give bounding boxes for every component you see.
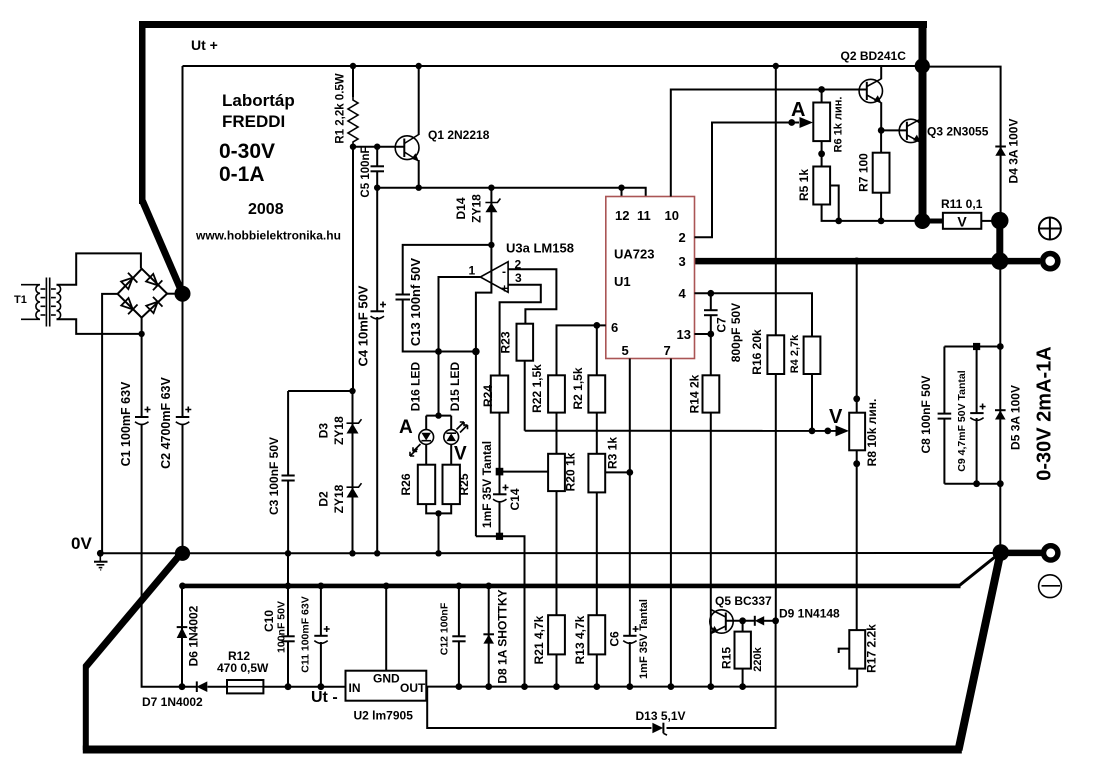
- node: C11 at Ut- rail: [318, 583, 325, 590]
- wire: secondary bottom lead to bridge bottom node: [57, 319, 140, 334]
- wire: pin13 stub: [695, 333, 711, 335]
- node: C9 top square: [973, 343, 980, 350]
- node: wiper line dot: [788, 119, 795, 126]
- wire: C11 line: [320, 586, 322, 687]
- wire: Q2 emitter down to Q3 base node: [880, 102, 882, 130]
- resistor R12 (horizontal): [227, 680, 263, 693]
- wire: C3 top to D3 line: [288, 390, 352, 392]
- wire: R4 bottom to row430: [811, 374, 813, 431]
- svg-text:C10: C10: [262, 610, 276, 632]
- wire: Ut+ rail y66: [183, 65, 922, 67]
- wire: R15: [742, 621, 744, 632]
- node: R6/R5 junction: [818, 150, 825, 157]
- thick wire: plus junction down to output line: [996, 221, 1003, 262]
- svg-text:R24: R24: [481, 385, 495, 407]
- wire: inner frame vertical x182.5: [182, 66, 184, 292]
- wire: R24 bottom to C14: [499, 413, 501, 537]
- node: D14 top: [488, 185, 494, 191]
- svg-text:V: V: [957, 214, 967, 230]
- svg-text:0-30V: 0-30V: [219, 140, 275, 163]
- svg-text:V: V: [454, 444, 467, 465]
- svg-text:R20 1k: R20 1k: [564, 452, 578, 491]
- resistor R15: [735, 632, 751, 669]
- wire: R5 wiper to bottom: [830, 186, 839, 221]
- node: Ut- rail left end / D6 top: [179, 583, 186, 590]
- ground symbol: [94, 553, 108, 570]
- wire: row y430.9 to R8 wiper: [525, 430, 838, 432]
- svg-text:www.hobbielektronika.hu: www.hobbielektronika.hu: [195, 229, 341, 243]
- wire: bridge minus corner left and down to 0V: [102, 294, 118, 552]
- op-amp U3a: [480, 262, 508, 296]
- svg-text:R22 1,5k: R22 1,5k: [530, 364, 544, 413]
- wire: R1 line top: [352, 66, 354, 97]
- node: R15 at bottom rail: [739, 683, 746, 690]
- wire: Q2 collector up to V+ rail: [880, 66, 882, 79]
- svg-text:R11 0,1: R11 0,1: [941, 197, 983, 211]
- svg-text:R2 1,5k: R2 1,5k: [571, 367, 585, 409]
- wire: C1 line down across 0V to bottom rail corner: [142, 334, 181, 687]
- capacitor C4 (electrolytic): [371, 302, 387, 319]
- capacitor C10: [281, 636, 294, 641]
- svg-text:2008: 2008: [248, 201, 284, 218]
- capacitor C6 (electrolytic): [623, 626, 638, 643]
- node: pin6/R2: [593, 322, 600, 329]
- node: R15 top: [739, 617, 746, 624]
- wire: C2 line from plus node to 0V node: [182, 294, 184, 554]
- resistor R24: [491, 376, 508, 413]
- svg-text:D3: D3: [317, 423, 331, 439]
- svg-text:D15 LED: D15 LED: [448, 361, 462, 411]
- wire: R2 to R3 to R13 chain: [596, 413, 598, 616]
- wire: pin6 to R22: [557, 325, 606, 375]
- node: bottom row at D5 line: [997, 480, 1004, 487]
- svg-text:C6: C6: [608, 631, 622, 647]
- bridge diode top-right: [145, 273, 162, 290]
- svg-text:Ut +: Ut +: [191, 37, 218, 53]
- svg-text:R14 2k: R14 2k: [688, 374, 702, 413]
- node: Q1 collector top: [416, 63, 422, 69]
- resistor R17 (trimmer): [849, 630, 865, 669]
- transistor Q1: [395, 135, 419, 162]
- wire: C8: [943, 347, 945, 484]
- transistor Q3: [899, 119, 922, 143]
- svg-text:IN: IN: [349, 681, 361, 695]
- svg-text:D13 5,1V: D13 5,1V: [636, 709, 686, 723]
- wire: 0V rail: [100, 552, 1000, 554]
- zener D2: [347, 483, 362, 497]
- wire: Q3 base: [881, 129, 907, 131]
- thick border: bottom bar: [83, 746, 962, 754]
- node: C10 at bottom rail: [285, 683, 292, 690]
- svg-text:7: 7: [664, 343, 671, 358]
- node: D6 at bottom rail: [179, 683, 186, 690]
- node: D2 at 0V: [349, 550, 355, 556]
- node: C12 at bottom rail: [456, 683, 463, 690]
- node: bridge bottom / C1 junction: [138, 331, 144, 337]
- node: output at row: [435, 348, 442, 355]
- thick border: bottom-right diagonal to minus node: [959, 553, 1001, 750]
- wire: D13 loop from U2 out corner: [427, 621, 775, 728]
- svg-text:D2: D2: [317, 491, 331, 507]
- wire: U2 GND pin up to Ut- rail: [385, 586, 387, 671]
- node: C14 line at bottom rail: [521, 683, 528, 690]
- svg-text:R13 4,7k: R13 4,7k: [573, 615, 587, 664]
- svg-text:R5 1k: R5 1k: [797, 169, 811, 201]
- wire: C10 line (C3 line continues below 0V): [287, 553, 289, 686]
- node: C5 top: [374, 144, 380, 150]
- capacitor C2 (electrolytic): [176, 407, 192, 425]
- wire: D3/D2 chain line: [352, 391, 354, 553]
- svg-text:R26: R26: [399, 473, 413, 495]
- capacitor C5: [371, 166, 385, 171]
- svg-text:UA723: UA723: [614, 247, 654, 262]
- node: D14 line at row: [472, 348, 480, 356]
- resistor R14: [703, 375, 720, 412]
- svg-text:R15: R15: [720, 647, 734, 669]
- svg-text:100nF 50V: 100nF 50V: [275, 601, 287, 653]
- svg-text:Q2 BD241C: Q2 BD241C: [841, 49, 907, 63]
- potentiometer R6: [813, 103, 830, 142]
- svg-text:0V: 0V: [71, 534, 92, 553]
- capacitor C7: [704, 310, 718, 315]
- resistor R16: [767, 335, 784, 374]
- wire: R6 bottom to R5 top: [821, 141, 823, 166]
- wire: feedback row y351.5: [403, 351, 476, 353]
- wire: U3a output to feedback node: [439, 277, 481, 352]
- node: C10 at Ut- rail: [285, 583, 292, 590]
- svg-text:R7 100: R7 100: [857, 153, 871, 192]
- node: 0V at C2 bottom: [175, 546, 190, 561]
- svg-text:Q1 2N2218: Q1 2N2218: [428, 128, 490, 142]
- node: R1 top: [350, 63, 356, 69]
- svg-text:6: 6: [611, 320, 618, 335]
- node: C12 at Ut- rail: [456, 583, 463, 590]
- svg-text:R23: R23: [499, 331, 513, 353]
- svg-text:T1: T1: [14, 294, 27, 306]
- svg-text:C12 100nF: C12 100nF: [438, 602, 450, 655]
- node: R16 line top: [773, 63, 779, 69]
- svg-text:V: V: [829, 406, 843, 428]
- svg-text:GND: GND: [373, 672, 400, 686]
- wire: bottom rail left segment: [182, 686, 346, 688]
- svg-text:D14: D14: [454, 197, 468, 219]
- svg-text:Ut -: Ut -: [311, 689, 338, 706]
- resistor R3 (trimmer): [588, 454, 605, 493]
- svg-text:OUT: OUT: [400, 681, 426, 695]
- svg-text:220k: 220k: [752, 646, 764, 671]
- node: C11 at bottom rail: [318, 683, 325, 690]
- capacitor C8: [938, 414, 952, 419]
- node: thick bar bottom at R11: [914, 213, 930, 229]
- svg-text:11: 11: [637, 208, 651, 223]
- node: row dot before arrow: [824, 428, 831, 435]
- diode D5: [995, 410, 1006, 419]
- wire: U3a pin3 to R24: [500, 285, 541, 376]
- node: R3 tap at pin5 line: [626, 469, 633, 476]
- svg-text:D4 3A 100V: D4 3A 100V: [1007, 119, 1021, 184]
- diode D9: [755, 616, 764, 626]
- node: R5 wiper at row: [835, 218, 842, 225]
- wire: bridge bottom corner to C1 node: [141, 317, 143, 336]
- wire: R16 line from V+ rail down to D9 node: [775, 66, 777, 621]
- svg-text:A: A: [399, 417, 413, 438]
- svg-text:+: +: [501, 282, 508, 296]
- svg-text:2: 2: [679, 230, 686, 245]
- svg-text:D9 1N4148: D9 1N4148: [779, 607, 840, 621]
- resistor R1 (zigzag): [348, 97, 358, 147]
- wire: R11 right to plus junction: [981, 220, 995, 222]
- LED D16: [410, 430, 434, 456]
- svg-text:0-1A: 0-1A: [219, 163, 265, 186]
- wire: R23 bottom to row430 corner: [524, 361, 526, 431]
- svg-text:R4 2,7k: R4 2,7k: [789, 334, 801, 373]
- svg-text:R1 2,2k 0.5W: R1 2,2k 0.5W: [335, 73, 347, 143]
- svg-text:C14: C14: [508, 488, 522, 510]
- svg-text:C13 100nf 50V: C13 100nf 50V: [408, 258, 423, 346]
- svg-text:800pF 50V: 800pF 50V: [729, 303, 743, 362]
- node: Q1 emitter at rail: [416, 185, 422, 191]
- wire: C8 C9 bottom row: [944, 483, 1000, 485]
- node: R4 at row: [809, 428, 816, 435]
- svg-text:D16 LED: D16 LED: [409, 361, 423, 411]
- svg-text:C11 100mF 63V: C11 100mF 63V: [299, 596, 311, 672]
- bridge diode bottom-left: [120, 297, 137, 314]
- svg-text:A: A: [791, 99, 805, 121]
- resistor R21: [548, 615, 565, 654]
- wire: R15 bottom: [742, 669, 744, 687]
- resistor R7: [873, 153, 890, 193]
- svg-text:C5 100nF: C5 100nF: [360, 146, 372, 197]
- wire: pin12 stub: [621, 188, 623, 197]
- node: C9 bottom: [973, 480, 980, 487]
- svg-text:1mF 35V Tantal: 1mF 35V Tantal: [480, 441, 494, 528]
- wire: R22 to R20 to R21 chain: [556, 413, 558, 616]
- svg-text:R16 20k: R16 20k: [750, 329, 764, 375]
- terminal: minus output ring: [1044, 546, 1058, 560]
- resistor R22: [548, 375, 565, 412]
- wire: R14 line down through Q5 to bottom rail: [710, 334, 712, 687]
- node: D9/R16/D13 junction: [772, 617, 779, 624]
- node: 0V left end: [97, 550, 104, 557]
- node: rectifier plus output: [175, 286, 191, 302]
- thick border: top-left diagonal to rectifier + node: [143, 201, 183, 294]
- wire: R17 bottom to rail end: [856, 669, 858, 687]
- node: LED branch top: [435, 412, 441, 418]
- resistor R26: [418, 465, 435, 504]
- wire: C7: [710, 293, 712, 334]
- diode D8: [483, 634, 494, 643]
- svg-text:10: 10: [665, 208, 679, 223]
- wire: pin5 line down through C6 to bottom rail: [629, 359, 631, 687]
- capacitor C11 (electrolytic): [314, 626, 329, 643]
- transistor Q5: [710, 610, 733, 635]
- svg-text:R3 1k: R3 1k: [606, 437, 620, 469]
- svg-text:U1: U1: [614, 274, 631, 289]
- wire: R5 bottom row to thick node: [822, 205, 918, 221]
- thick wire: output plus line (UA723 pin3 rail): [695, 258, 1041, 265]
- resistor R5 (trimmer): [813, 167, 830, 205]
- capacitor C1 (electrolytic): [135, 407, 151, 425]
- svg-text:Q3 2N3055: Q3 2N3055: [927, 125, 989, 139]
- wire: secondary top lead to bridge top: [57, 253, 141, 284]
- node: LED bottom: [435, 510, 441, 516]
- wire: C9: [976, 347, 978, 484]
- node: UA723 pin12 stub: [618, 185, 624, 191]
- transistor Q2: [859, 79, 882, 104]
- svg-text:R8 10k лин.: R8 10k лин.: [865, 399, 879, 467]
- thick border: top bar: [139, 21, 927, 28]
- wire: R17 tap stub: [839, 649, 850, 653]
- node: R8 bottom dot: [853, 460, 860, 467]
- svg-text:C9 4,7mF 50V Tantal: C9 4,7mF 50V Tantal: [956, 370, 968, 471]
- wire: Q5 base to D9: [726, 620, 755, 622]
- wire: LED chain bottom to 0V: [426, 504, 451, 553]
- wire: C4 line (x377 long vertical): [376, 188, 378, 554]
- wire: R2 top: [596, 325, 598, 375]
- wire: R21 bottom: [556, 654, 558, 686]
- svg-text:R21 4,7k: R21 4,7k: [532, 615, 546, 664]
- svg-text:D5 3A 100V: D5 3A 100V: [1009, 385, 1023, 450]
- wire: emitter rail y187.7: [377, 188, 646, 197]
- thick wire: stub from bar node to R11: [922, 219, 943, 224]
- svg-text:C2 4700mF 63V: C2 4700mF 63V: [159, 376, 173, 468]
- wire: C5 line: [376, 147, 378, 188]
- svg-text:C7: C7: [715, 317, 729, 333]
- wire: C14 bottom jog: [476, 536, 525, 686]
- svg-text:1: 1: [469, 264, 476, 278]
- node: Q5 emitter at bottom rail: [707, 683, 714, 690]
- node: D8 at Ut- rail: [485, 583, 492, 590]
- wire: C13 top: [403, 245, 492, 352]
- LED D15: [444, 422, 468, 444]
- svg-text:-: -: [502, 265, 506, 279]
- node: pin7 at bottom rail: [668, 683, 675, 690]
- node: D8 at bottom rail: [485, 683, 492, 690]
- IC U2 lm7905: [346, 671, 427, 701]
- wire: R20 tap from C14 node: [500, 471, 549, 473]
- wire: pin4 to R4: [695, 293, 813, 336]
- wire: R7 bottom: [880, 193, 882, 221]
- svg-text:470 0,5W: 470 0,5W: [217, 661, 269, 675]
- resistor R23: [517, 324, 534, 361]
- wire: U3a pin2 to R23: [508, 269, 556, 324]
- node: top-right V+ big junction: [915, 58, 930, 73]
- bridge diode top-left: [120, 273, 137, 290]
- wire: bridge plus corner to node: [167, 293, 180, 295]
- capacitor C14 (electrolytic): [493, 485, 509, 502]
- node: C4 at 0V: [374, 550, 380, 556]
- bridge diode bottom-right: [145, 297, 162, 314]
- wire: R6 top from row to box: [821, 90, 823, 103]
- node: R21 at bottom rail: [553, 683, 560, 690]
- wire: C12 line: [458, 586, 460, 687]
- thick border: bottom-left diagonal from 0V node: [86, 554, 182, 668]
- capacitor C13: [396, 295, 411, 300]
- node: minus output: [993, 544, 1010, 561]
- wire: Q1 emitter down: [418, 160, 420, 188]
- wire: D5 line from plus node down to minus node: [999, 261, 1001, 552]
- svg-text:U2 lm7905: U2 lm7905: [354, 709, 414, 723]
- node: C6 at bottom rail: [626, 683, 633, 690]
- svg-text:D7 1N4002: D7 1N4002: [142, 695, 203, 709]
- diode D6: [177, 627, 188, 638]
- node: C3 top junction: [349, 388, 355, 394]
- svg-text:U3a LM158: U3a LM158: [506, 241, 574, 256]
- thick border: bottom-left vertical: [83, 665, 89, 750]
- svg-text:C8 100nF 50V: C8 100nF 50V: [919, 375, 933, 453]
- resistor R13: [588, 615, 605, 654]
- node: LED at 0V: [435, 550, 441, 556]
- wire: LED branch from output node: [426, 352, 451, 465]
- zener D3: [347, 419, 362, 433]
- node: R1 bottom / base node: [350, 144, 356, 150]
- wire: R8 top to thick output line: [856, 261, 858, 413]
- svg-text:4: 4: [679, 286, 687, 301]
- svg-text:3: 3: [679, 254, 686, 269]
- transformer T1: [21, 278, 61, 327]
- diode D13: [652, 723, 667, 735]
- wire: V+ rail to D4 corner: [927, 67, 1001, 215]
- resistor R25: [443, 465, 460, 504]
- node: pin13/C7/R14: [707, 331, 714, 338]
- wire: C8 C9 top row: [944, 346, 1000, 348]
- node: C5 bottom: [374, 185, 380, 191]
- node: C8/C9 row at D5 line: [997, 343, 1004, 350]
- node: plus output on thick line: [991, 252, 1008, 269]
- node: C7 top: [707, 290, 714, 297]
- svg-text:13: 13: [677, 327, 691, 342]
- node: C13 top junction on D14 line: [488, 242, 494, 248]
- resistor R20 (trimmer): [548, 454, 565, 491]
- bridge rectifier diamond: [118, 269, 168, 318]
- svg-text:3: 3: [515, 271, 522, 285]
- svg-text:12: 12: [615, 208, 629, 223]
- wire: feedback left vertical down: [475, 352, 477, 537]
- wire: pin10 up to R6 row: [671, 90, 867, 197]
- thick border: right vertical bar (collector rail): [919, 21, 927, 223]
- svg-text:D6 1N4002: D6 1N4002: [187, 605, 201, 666]
- thick wire: minus node stub to ring: [1001, 550, 1042, 557]
- wire: R8 bottom to R17: [856, 450, 858, 630]
- wire: R3 tap to pin5 line: [605, 471, 630, 473]
- potentiometer R8: [849, 413, 865, 451]
- wire: D14 line down through U3a to feedback: [476, 188, 492, 352]
- node: plus output junction (R11 right): [991, 212, 1008, 229]
- diode D7: [197, 681, 208, 692]
- node: C14 bottom square: [496, 533, 503, 540]
- svg-text:0-30V 2mA-1A: 0-30V 2mA-1A: [1033, 346, 1055, 481]
- resistor R11: [943, 213, 981, 229]
- node: R8 top dot: [853, 395, 860, 402]
- polarity symbol: circle-minus: [1039, 575, 1062, 598]
- svg-text:C4 10mF 50V: C4 10mF 50V: [355, 285, 370, 366]
- wiper arrowhead R8: [836, 425, 850, 436]
- capacitor C3: [282, 476, 295, 481]
- svg-text:1mF 35V Tantal: 1mF 35V Tantal: [638, 599, 650, 679]
- wire: D9 to R16 line: [764, 620, 776, 622]
- zener D14: [485, 199, 500, 213]
- svg-text:R6 1k лин.: R6 1k лин.: [832, 97, 844, 153]
- wire: R1 line continues down to D3: [352, 147, 354, 391]
- svg-text:C1 100mF 63V: C1 100mF 63V: [119, 381, 133, 466]
- resistor R4: [804, 337, 821, 375]
- node: C3 at 0V: [285, 550, 291, 556]
- wire: pin7 line down to bottom rail: [670, 359, 672, 687]
- svg-text:FREDDI: FREDDI: [222, 112, 285, 131]
- wire: pin2 to R6 wiper line: [695, 123, 800, 238]
- wire: diagonal from minus node to Ut- thick rail: [959, 553, 1000, 586]
- wire: Q1 collector up: [418, 66, 420, 135]
